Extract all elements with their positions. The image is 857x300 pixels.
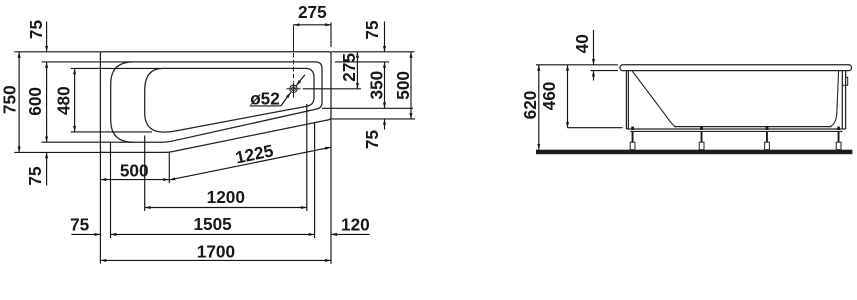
frame rail — [630, 130, 842, 132]
drain centerline dashed part — [293, 53, 295, 83]
tub body left edge outer — [625, 71, 627, 129]
extension rim bottom — [591, 70, 618, 72]
svg-text:620: 620 — [520, 91, 540, 120]
drain inner circle — [292, 87, 296, 91]
foot 3 bolt — [766, 127, 769, 130]
dimension 1700 — [100, 259, 331, 261]
extension line rim bottom left — [42, 141, 133, 143]
dimension 500 bottom — [100, 179, 169, 181]
shell bottom line — [626, 128, 845, 130]
floor baseline (thick) — [536, 150, 852, 155]
ø52 opposite arrow upper-right — [296, 75, 305, 86]
tub body left edge inner — [627, 71, 629, 129]
svg-text:ø52: ø52 — [250, 88, 280, 108]
svg-text:75: 75 — [25, 166, 45, 186]
ø52 label underline — [250, 105, 281, 107]
drain vertical dashed centerline — [293, 25, 295, 52]
extension line floor top left — [71, 67, 160, 69]
dimension 275 right — [356, 52, 358, 89]
extension shell bottom — [568, 127, 623, 129]
foot 1 plate — [630, 142, 635, 150]
dimension 75 bottom-left (outside arrows) — [46, 152, 48, 185]
svg-text:75: 75 — [26, 20, 46, 40]
dimension 1225 aligned — [169, 147, 331, 180]
svg-text:40: 40 — [572, 34, 592, 53]
dimension 1200 — [145, 207, 307, 209]
dimension 75 bottom-left outside — [71, 233, 100, 235]
dimension 1505 — [111, 233, 315, 235]
dimension 620 — [538, 65, 540, 150]
svg-text:75: 75 — [70, 215, 90, 235]
drain horizontal centerline — [286, 88, 300, 90]
dimension 460 — [567, 65, 569, 128]
svg-text:75: 75 — [362, 20, 382, 40]
svg-text:1700: 1700 — [197, 241, 235, 261]
dimension 120 outside arrow — [331, 233, 370, 235]
tub body right edge outer — [845, 71, 847, 129]
extension rim top left — [536, 64, 618, 66]
svg-text:275: 275 — [339, 53, 359, 82]
dimension 480 — [74, 68, 76, 131]
svg-text:1225: 1225 — [234, 140, 276, 167]
bottom extension: floor right down — [306, 104, 308, 211]
svg-text:350: 350 — [367, 71, 387, 100]
tub body right edge inner — [841, 71, 843, 129]
svg-text:1200: 1200 — [207, 187, 245, 207]
extension line rim top left — [42, 61, 133, 63]
foot 3 rod — [766, 131, 768, 142]
foot 1 rod — [632, 131, 634, 142]
bathtub rim contour (plan view) — [111, 62, 322, 142]
dimension 500 right — [410, 52, 412, 119]
right side: extension rim diag corner — [322, 107, 413, 109]
bottom extension: rim left down — [110, 142, 112, 238]
bottom extension: right edge down — [330, 120, 332, 264]
drain centerline through drain — [293, 83, 295, 98]
dimension 40 lower outside arrow — [593, 71, 595, 81]
svg-text:750: 750 — [0, 85, 20, 114]
interior floor line — [674, 126, 832, 128]
svg-text:480: 480 — [54, 86, 74, 115]
bathtub bowl floor contour (plan view) — [145, 68, 314, 132]
svg-text:75: 75 — [362, 130, 382, 150]
foot 4 plate — [836, 142, 841, 150]
drain ø52 outer circle — [290, 85, 297, 92]
foot 2 plate — [699, 142, 704, 150]
foot 3 plate — [765, 142, 770, 150]
dimension 750 — [18, 52, 20, 153]
bottom extension: floor left down — [144, 136, 146, 212]
interior right wall — [830, 71, 839, 127]
ø52 leader arrow lower-left — [281, 92, 291, 106]
bathtub outer contour (plan view) — [100, 52, 331, 153]
foot 1 bolt — [631, 127, 634, 130]
dimension 75 top-right (outside arrows) — [384, 22, 386, 52]
tub rim bar (side view) — [620, 65, 852, 71]
svg-text:500: 500 — [393, 71, 413, 100]
right side: extension bottom corner — [331, 118, 415, 120]
extension line bottom edge left — [14, 151, 100, 153]
right side: extension drain axis — [303, 88, 361, 90]
right side: extension rim line — [335, 61, 389, 63]
svg-text:1505: 1505 — [193, 214, 232, 234]
svg-text:275: 275 — [298, 2, 327, 22]
right side: extension top edge — [331, 51, 415, 53]
foot 2 rod — [701, 131, 703, 142]
svg-text:500: 500 — [120, 161, 149, 181]
extension line floor bottom left — [71, 131, 152, 133]
extension line top edge left — [14, 51, 100, 53]
svg-text:460: 460 — [539, 82, 559, 111]
right seam tab — [842, 77, 847, 85]
dimension 600 — [46, 62, 48, 142]
dimension 75 top-left (outside arrows) — [46, 22, 48, 52]
dimension 350 right — [384, 62, 386, 108]
dimension 275 top — [294, 24, 332, 26]
dimension 40 (outside arrows) — [593, 30, 595, 65]
foot 2 bolt — [700, 127, 703, 130]
foot 4 bolt — [837, 127, 840, 130]
bottom extension: diag bend down — [168, 153, 170, 184]
bottom extension: left edge down — [99, 152, 101, 263]
bottom extension: 1505 end down — [314, 123, 316, 239]
svg-text:120: 120 — [341, 214, 370, 234]
foot 4 rod — [838, 131, 840, 142]
svg-text:600: 600 — [25, 87, 45, 116]
dimension 75 bottom-right (outside arrows) — [384, 119, 386, 130]
interior slope (head end) — [632, 71, 676, 127]
top 275: extension right edge up — [330, 22, 332, 47]
